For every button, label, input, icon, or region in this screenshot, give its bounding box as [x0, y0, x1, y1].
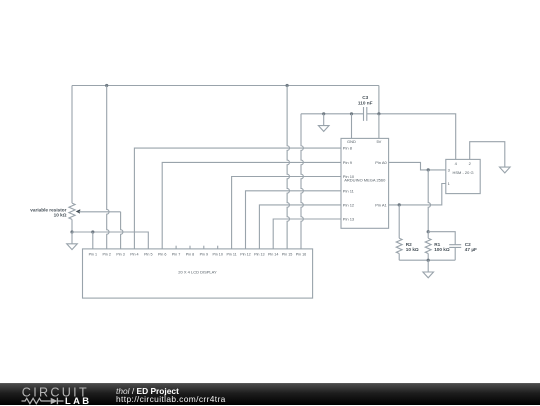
svg-text:Pin 15: Pin 15 — [282, 252, 292, 256]
capacitor C2 plates — [449, 245, 461, 248]
svg-text:R1: R1 — [434, 242, 440, 247]
ground: under pot — [71, 232, 73, 244]
wire: 5V rail right drop to cap row — [378, 86, 380, 114]
wire: 5V rail vertical to pot top — [71, 86, 73, 204]
wire: 5V down to LCD pin 2 (hops over wiper and gnd rows) — [107, 86, 109, 249]
svg-text:Pin 7: Pin 7 — [172, 252, 180, 256]
svg-text:Pin 13: Pin 13 — [343, 217, 355, 222]
svg-text:C2: C2 — [465, 242, 471, 247]
svg-text:Pin 14: Pin 14 — [268, 252, 278, 256]
wire: R2 bottom lead — [398, 254, 400, 261]
svg-text:Pin 11: Pin 11 — [227, 252, 237, 256]
wire: arduino Pin 8 to LCD pin 4 — [134, 148, 341, 249]
ground: right of HSM (pin 2) — [500, 167, 511, 173]
capacitor C3 plates — [364, 107, 367, 121]
wire: gnd row down to LCD pin 1 — [92, 232, 94, 249]
svg-text:Pin 12: Pin 12 — [240, 252, 250, 256]
node: junction 5V rail / LCD pin 15 feed — [286, 84, 289, 87]
svg-text:variable resistor: variable resistor — [30, 207, 66, 212]
wire: wiper column down to LCD pin 3 (hop over gnd row) — [121, 212, 123, 249]
wire: arduino Pin 13 to LCD pin 14 — [273, 219, 341, 249]
ground: under R1 — [427, 260, 429, 272]
svg-text:GND: GND — [347, 139, 356, 144]
svg-text:Pin 8: Pin 8 — [343, 146, 353, 151]
svg-text:Pin A0: Pin A0 — [375, 160, 387, 165]
svg-text:Pin 3: Pin 3 — [116, 252, 124, 256]
circuitlab logo — [0, 384, 112, 406]
svg-text:Pin 13: Pin 13 — [254, 252, 264, 256]
wire: R1 top across to C2 and down — [428, 232, 455, 245]
svg-text:Pin 11: Pin 11 — [343, 188, 355, 193]
svg-text:Pin 12: Pin 12 — [343, 202, 355, 207]
svg-text:Pin 6: Pin 6 — [158, 252, 166, 256]
svg-text:Pin 16: Pin 16 — [296, 252, 306, 256]
wire: pot bottom lead — [71, 219, 73, 232]
node: junction A1 row / R2 top — [398, 203, 401, 206]
footer bar — [0, 383, 540, 405]
LCD display box — [83, 249, 313, 298]
svg-text:Pin 5: Pin 5 — [144, 252, 152, 256]
wire: arduino GND pin stub — [351, 114, 353, 139]
LCD pin 9 stub — [203, 246, 205, 249]
node: junction gnd row / LCD pin 1 — [91, 230, 94, 233]
wire: 5V down to LCD pin 15 (hops over six arduino pin rows) — [287, 86, 289, 249]
node: junction R1 top / C2 branch — [427, 230, 430, 233]
wire: arduino 5V pin stub — [378, 114, 380, 139]
svg-text:5V: 5V — [376, 139, 381, 144]
wire: gnd down to LCD pin 16 (hops over six arduino pin rows) — [301, 114, 303, 249]
op-amp U1 arduino mega 2560 box — [341, 138, 389, 228]
svg-text:Pin 9: Pin 9 — [343, 160, 353, 165]
wire: R1 top lead — [427, 232, 429, 239]
svg-text:10 kΩ: 10 kΩ — [54, 213, 67, 218]
LCD pin 8 stub — [189, 246, 191, 249]
wire: arduino Pin 12 to LCD pin 13 — [259, 205, 341, 249]
ground: under cap row — [323, 114, 325, 126]
svg-text:20 X 4 LCD DISPLAY: 20 X 4 LCD DISPLAY — [178, 270, 217, 275]
wire: pot wiper horizontal to pin3 column — [79, 211, 121, 213]
pot wiper arrow — [76, 209, 81, 213]
svg-text:LAB: LAB — [65, 395, 91, 406]
svg-text:ARDUINO MEGA 2560: ARDUINO MEGA 2560 — [344, 177, 386, 182]
sensor U2 HSM-20G box — [446, 159, 480, 193]
svg-text:Pin 4: Pin 4 — [130, 252, 138, 256]
wire: arduino Pin 11 to LCD pin 12 — [246, 191, 342, 249]
wire: R2 top lead — [398, 205, 400, 238]
svg-text:Pin 1: Pin 1 — [89, 252, 97, 256]
svg-text:10 kΩ: 10 kΩ — [406, 247, 419, 252]
node: junction 5V rail/cap/arduino 5V pin — [377, 112, 380, 115]
node: junction 5V rail / LCD pin 2 feed — [105, 84, 108, 87]
svg-text:Pin 9: Pin 9 — [200, 252, 208, 256]
wire: arduino Pin 9 to LCD pin 6 — [162, 162, 341, 249]
wire: R1 bottom lead — [427, 254, 429, 261]
LCD pin 10 stub — [217, 246, 219, 249]
svg-text:100 kΩ: 100 kΩ — [434, 247, 450, 252]
svg-text:47 µF: 47 µF — [465, 247, 477, 252]
node: junction pot bottom / gnd row — [70, 230, 73, 233]
wire: bottom row R2-R1-C2 — [399, 259, 455, 261]
wire: gnd cap-row horizontal (left of C3) — [301, 113, 364, 115]
svg-text:Pin 2: Pin 2 — [102, 252, 110, 256]
wire: C2 bottom lead — [454, 247, 456, 260]
wire: arduino Pin A1 to HSM pin 1 — [389, 184, 446, 205]
svg-text:Pin 10: Pin 10 — [212, 252, 222, 256]
resistor R1 zigzag — [425, 238, 431, 253]
variable resistor R (10k pot) zigzag — [69, 203, 75, 219]
svg-text:Pin 8: Pin 8 — [186, 252, 194, 256]
wire: 5V cap row right segment to HSM pin 4 — [367, 114, 456, 160]
resistor R2 zigzag — [396, 238, 402, 253]
LCD pin 7 stub — [175, 246, 177, 249]
svg-text:Pin A1: Pin A1 — [375, 202, 387, 207]
wire: gnd row to LCD pin 5 — [72, 232, 148, 249]
svg-text:HSM - 20 G: HSM - 20 G — [452, 170, 473, 175]
footer title text — [116, 387, 226, 403]
node: junction cap row / arduino GND pin — [350, 112, 353, 115]
wire: arduino Pin 10 to LCD pin 11 — [232, 177, 341, 249]
node: junction A0 net / R1 column — [427, 168, 430, 171]
wire: arduino Pin A0 jog to HSM pin 3 — [389, 162, 446, 170]
wire: 5V top rail horizontal — [72, 85, 379, 87]
node: junction bottom row / ground — [427, 259, 430, 262]
svg-text:R2: R2 — [406, 242, 412, 247]
svg-text:110 nF: 110 nF — [358, 100, 373, 105]
wire: A0 node down to R1 (hop over A1 row) — [428, 170, 430, 232]
node: junction cap row / ground symbol — [322, 112, 325, 115]
svg-text:C3: C3 — [362, 95, 368, 100]
wire: HSM pin 2 up and over to ground — [470, 142, 505, 167]
